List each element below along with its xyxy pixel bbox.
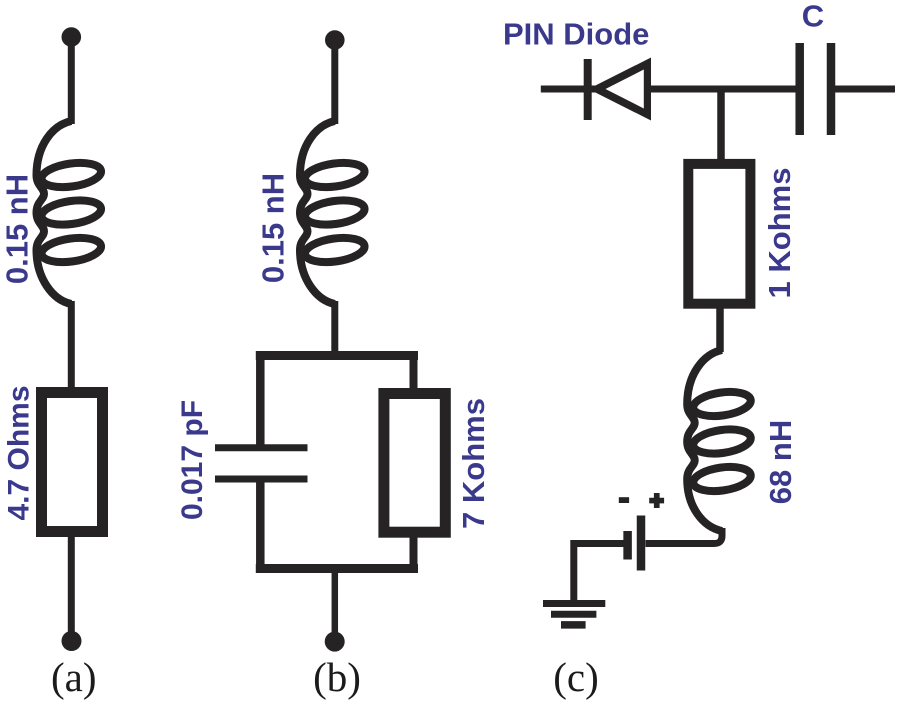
terminal dot bottom (a): [62, 631, 82, 651]
resistor R1 4.7 Ohms (a): [42, 393, 103, 532]
node top bar (b): [260, 351, 413, 360]
label minus sign (c): [619, 497, 629, 503]
svg-text:PIN Diode: PIN Diode: [503, 17, 649, 52]
node junction wire down (c): [717, 89, 725, 162]
svg-text:7 Kohms: 7 Kohms: [456, 398, 491, 529]
capacitor C1 0.017 pF top plate (b): [215, 444, 308, 451]
wire right branch upper (b): [410, 353, 418, 392]
resistor R2 7 Kohms (b): [384, 394, 445, 533]
svg-text:68 nH: 68 nH: [763, 420, 798, 504]
diode D1 cathode bar (c): [584, 59, 592, 120]
diode D1 triangle (c): [589, 58, 652, 121]
wire left branch lower (b): [256, 479, 265, 571]
wire bottom lead (a): [68, 537, 75, 638]
capacitor C left plate (c): [795, 43, 804, 135]
svg-text:1 Kohms: 1 Kohms: [762, 168, 797, 299]
ground bar 2 (c): [551, 611, 596, 618]
svg-text:C: C: [802, 0, 824, 34]
battery V1 negative plate (c): [623, 531, 632, 560]
wire top lead (b): [331, 43, 338, 124]
wire main horizontal right of capacitor (c): [835, 86, 895, 93]
wire top lead (a): [68, 40, 75, 124]
capacitor C1 0.017 pF bottom plate (b): [215, 476, 308, 483]
terminal dot top (b): [325, 30, 345, 50]
capacitor C right plate (c): [827, 43, 836, 135]
svg-text:0.017 pF: 0.017 pF: [176, 400, 209, 520]
wire bottom lead (b): [332, 568, 339, 638]
wire right branch lower (b): [410, 534, 418, 571]
svg-text:(c): (c): [553, 654, 599, 700]
battery V1 positive plate (c): [637, 516, 646, 571]
wire from coil to parallel block (b): [331, 301, 338, 358]
inductor L3 68 nH (c): [687, 350, 752, 531]
wire left branch upper (b): [256, 353, 265, 448]
terminal dot top (a): [62, 27, 82, 47]
wire main horizontal left (c): [541, 86, 796, 93]
label plus sign (c): [649, 493, 664, 508]
wire resistor to inductor (c): [716, 303, 724, 352]
wire middle (a): [68, 301, 75, 392]
resistor R3 1 Kohms (c): [688, 164, 750, 304]
wire battery to ground corner (c): [574, 544, 624, 601]
svg-text:0.15 nH: 0.15 nH: [0, 174, 35, 284]
svg-text:(a): (a): [51, 654, 97, 700]
svg-text:4.7 Ohms: 4.7 Ohms: [2, 385, 35, 520]
node bottom bar (b): [260, 564, 413, 573]
terminal dot bottom (b): [325, 632, 345, 652]
ground bar 3 (c): [561, 621, 586, 629]
svg-text:0.15 nH: 0.15 nH: [256, 173, 291, 283]
wire inductor bottom corner to battery (c): [646, 528, 723, 544]
svg-text:(b): (b): [313, 654, 361, 700]
inductor L1 0.15 nH (a): [37, 121, 103, 304]
ground bar 1 (c): [543, 600, 605, 607]
inductor L2 0.15 nH (b): [300, 121, 366, 304]
